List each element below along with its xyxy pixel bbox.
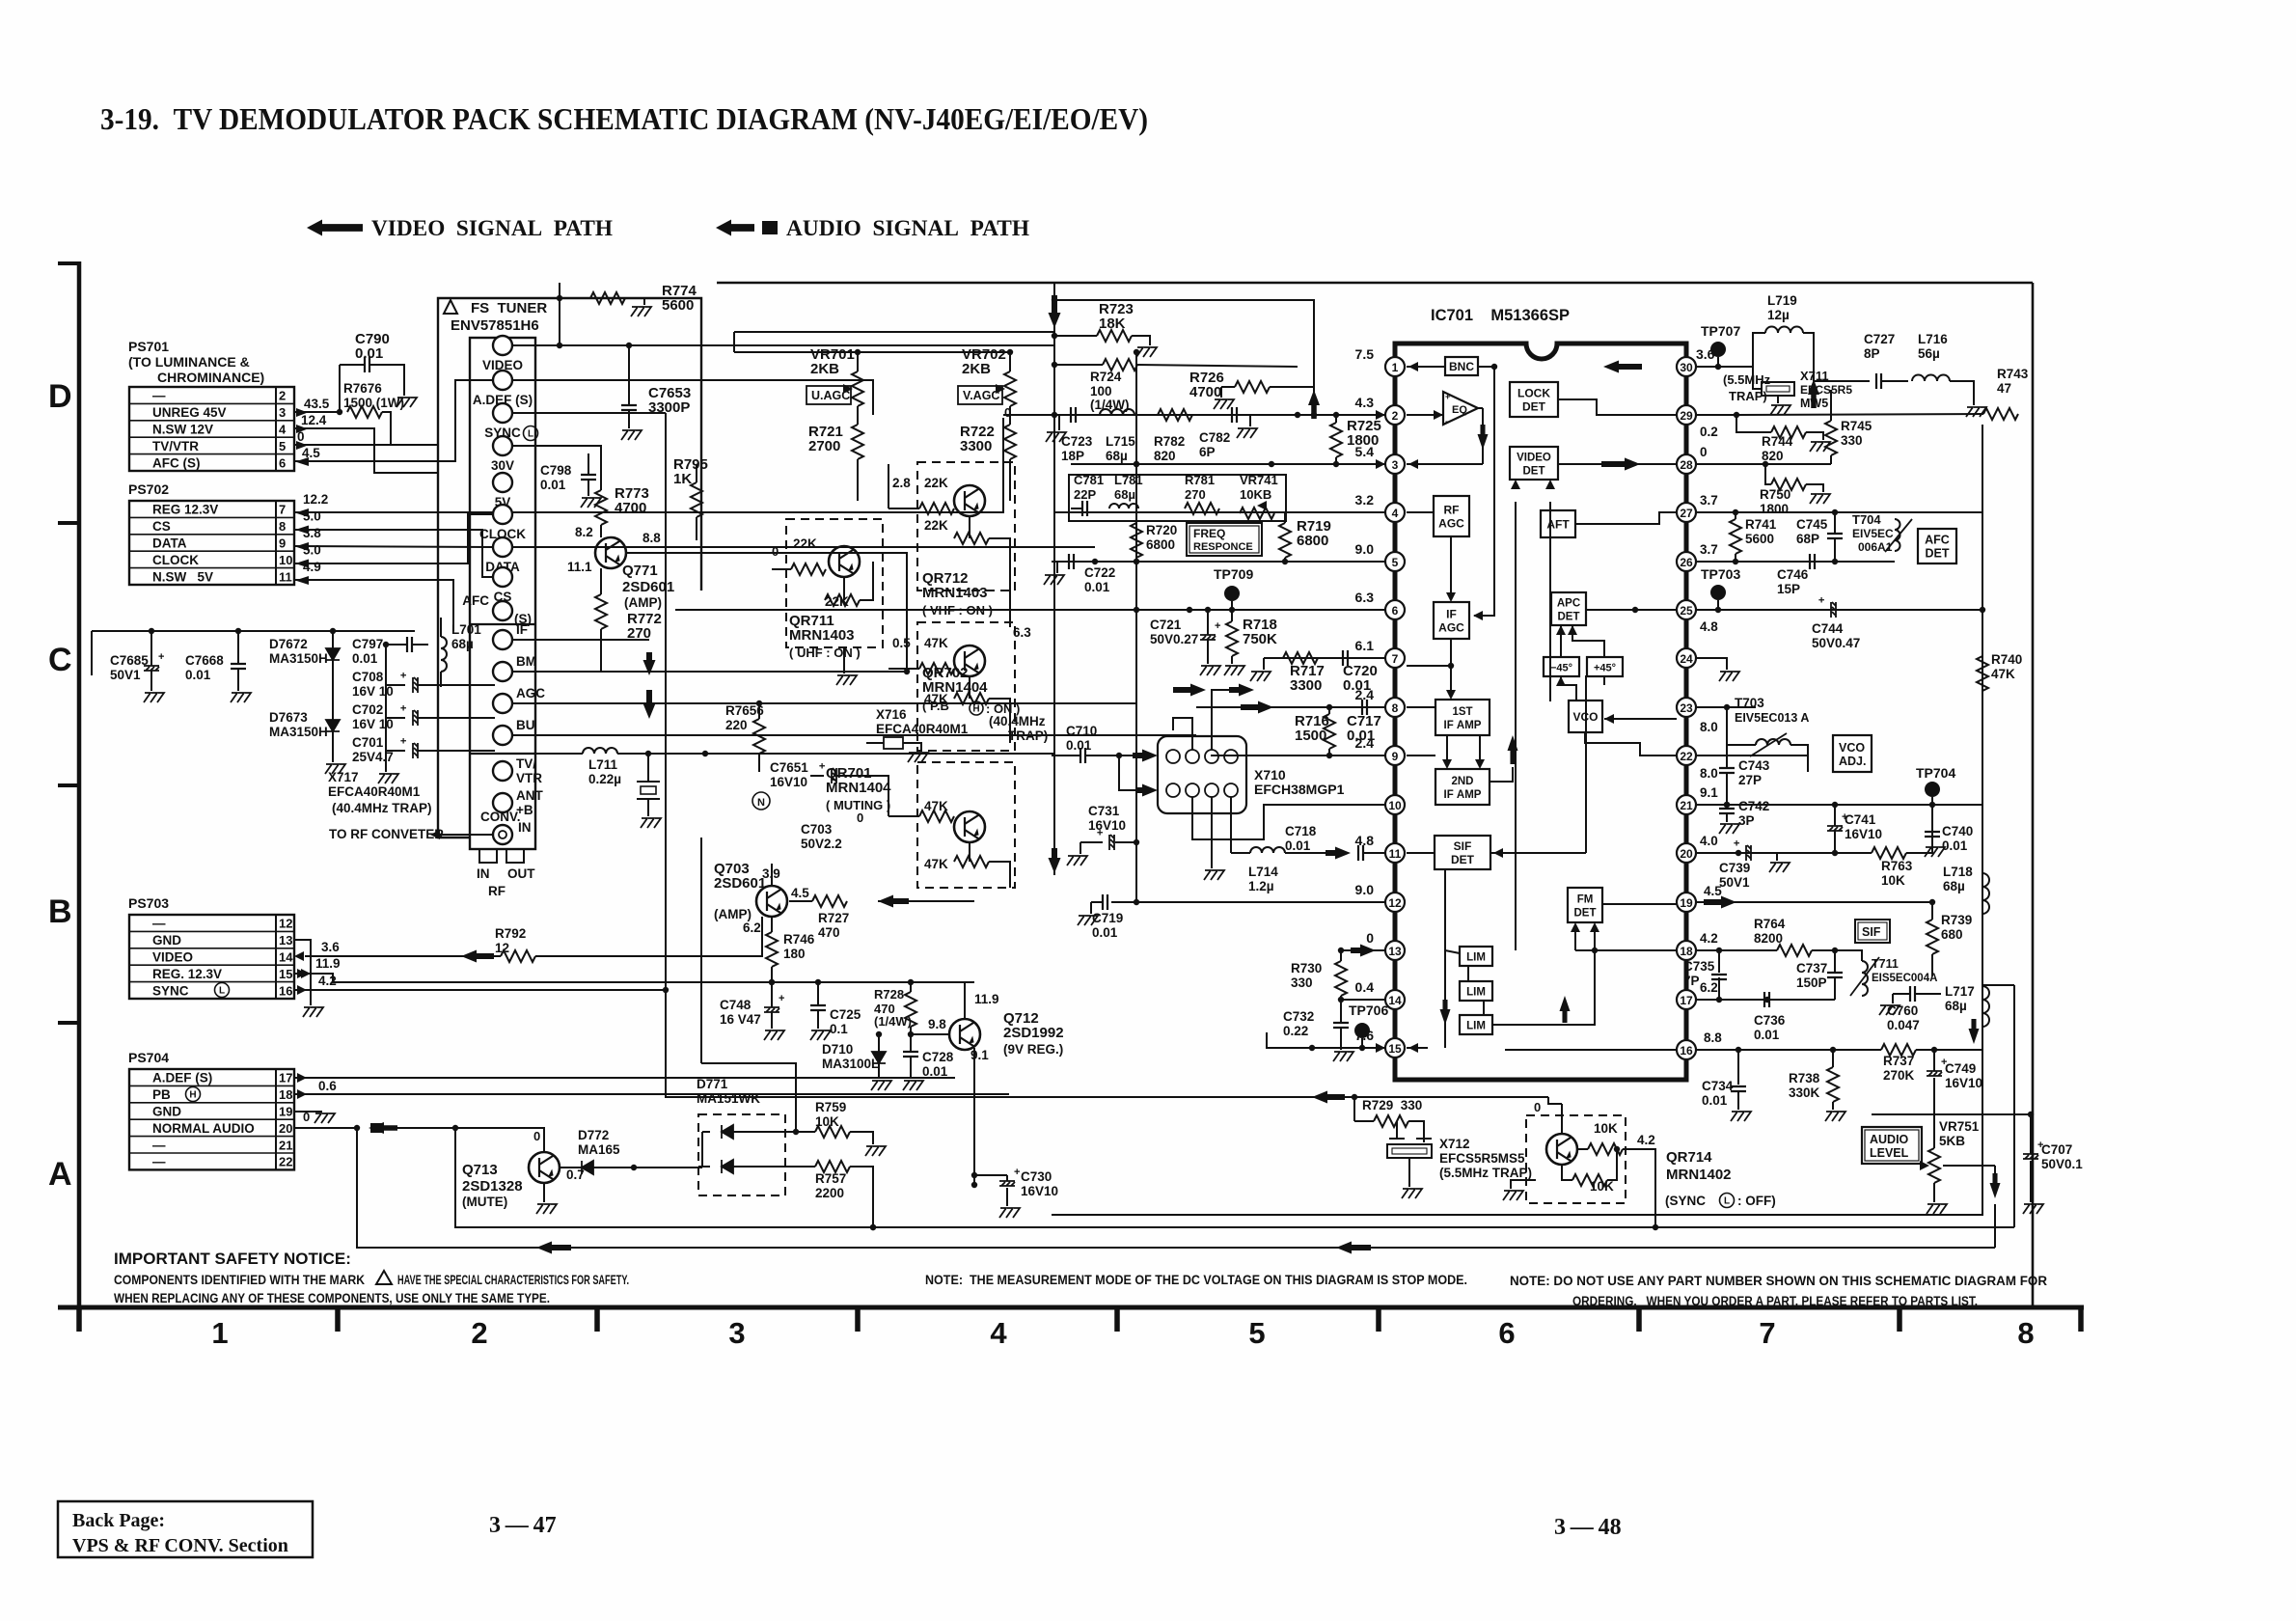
- svg-text:VIDEO: VIDEO: [152, 950, 193, 965]
- svg-text:12µ: 12µ: [1767, 308, 1790, 322]
- svg-text:C718: C718: [1285, 824, 1317, 838]
- svg-text:1ST: 1ST: [1452, 706, 1472, 718]
- wire pin24 stub: [1696, 658, 1727, 670]
- wire y311: [1054, 300, 1314, 415]
- wire bus right drop2: [1994, 1204, 1996, 1248]
- svg-text:EFCA40R40M1: EFCA40R40M1: [328, 784, 421, 799]
- svg-text:C701: C701: [352, 735, 384, 750]
- IC wire LIM3 out: [1492, 950, 1595, 1025]
- IC wire pin3-EQ: [1407, 463, 1483, 465]
- IC block LOCK DET: [1510, 382, 1558, 417]
- svg-text:4.2: 4.2: [1700, 931, 1718, 946]
- svg-text:11: 11: [279, 569, 292, 584]
- svg-text:VIDEO SIGNAL PATH: VIDEO SIGNAL PATH: [371, 216, 613, 240]
- svg-text:R743: R743: [1997, 367, 2029, 381]
- svg-text:3.8: 3.8: [303, 526, 321, 540]
- svg-text:22: 22: [1680, 750, 1693, 763]
- svg-text:0.5: 0.5: [892, 636, 911, 650]
- svg-text:AUDIO: AUDIO: [1870, 1133, 1909, 1146]
- svg-text:SYNC: SYNC: [152, 983, 189, 998]
- svg-text:680: 680: [1941, 927, 1963, 942]
- wire pin8 row: [1196, 706, 1385, 708]
- svg-text:20: 20: [279, 1121, 292, 1136]
- svg-text:21: 21: [1680, 799, 1693, 812]
- wire BM out: [512, 671, 907, 673]
- box VR741 row: [1069, 475, 1286, 521]
- svg-text:CLOCK: CLOCK: [152, 553, 199, 567]
- svg-text:26: 26: [1680, 556, 1693, 569]
- svg-text:50V1: 50V1: [110, 668, 141, 682]
- svg-text:6: 6: [279, 455, 286, 470]
- X710 gnd stub: [1212, 690, 1244, 750]
- svg-text:AFC: AFC: [462, 593, 489, 608]
- IC701 pin 5: [1385, 552, 1405, 571]
- svg-text:0.6: 0.6: [318, 1079, 337, 1093]
- frame bottom tick 2: [335, 1307, 341, 1332]
- wire Q771 emitter: [626, 553, 907, 672]
- wire bottom bus1: [455, 1128, 2014, 1227]
- svg-text:4.2: 4.2: [1637, 1133, 1655, 1147]
- svg-text:C746: C746: [1777, 567, 1809, 582]
- transistor QR712 wires: [888, 508, 919, 509]
- svg-text:8.8: 8.8: [1704, 1030, 1722, 1045]
- IC wire VCO-pin22: [1585, 732, 1677, 756]
- svg-text:0.22: 0.22: [1283, 1024, 1308, 1038]
- connector PS702: [129, 501, 294, 585]
- svg-text:14: 14: [279, 950, 293, 965]
- svg-text:EIV5EC: EIV5EC: [1852, 527, 1894, 540]
- right bus vertical: [1982, 425, 1983, 1052]
- tuner pin A.DEF (S): [493, 371, 512, 390]
- svg-text:6.2: 6.2: [1700, 980, 1718, 995]
- svg-text:GND: GND: [152, 933, 181, 948]
- svg-text:(AMP): (AMP): [624, 595, 662, 610]
- svg-text:2: 2: [471, 1316, 487, 1350]
- svg-text:AFC: AFC: [1925, 534, 1950, 547]
- svg-text:CONV.: CONV.: [480, 810, 521, 824]
- capacitor C735: [1711, 975, 1727, 979]
- svg-text:47K: 47K: [1991, 667, 2015, 681]
- svg-text:8.2: 8.2: [575, 525, 593, 539]
- IC701 pin 1: [1385, 357, 1405, 376]
- signal arrow pin8: [1173, 684, 1206, 697]
- IC wire FM arrows: [1574, 928, 1576, 950]
- svg-text:50V0.1: 50V0.1: [2041, 1157, 2083, 1171]
- wire pin27 row: [1696, 511, 1982, 513]
- svg-text:3P: 3P: [1738, 813, 1755, 828]
- svg-text:23: 23: [1680, 701, 1693, 715]
- svg-text:0: 0: [297, 429, 305, 444]
- X710 contact bottom 4: [1224, 783, 1238, 797]
- svg-text:5: 5: [279, 439, 286, 453]
- IC block RF AGC: [1434, 496, 1469, 536]
- svg-text:50V0.47: 50V0.47: [1812, 636, 1860, 650]
- svg-text:6800: 6800: [1297, 533, 1328, 549]
- svg-text:180: 180: [783, 947, 806, 961]
- tuner pin BU: [493, 726, 512, 745]
- wire cap bus: [385, 645, 387, 772]
- svg-text:19: 19: [279, 1105, 292, 1119]
- IC wire APC arrows: [1560, 625, 1562, 657]
- capacitor C739: [1732, 840, 1751, 861]
- svg-text:UNREG 45V: UNREG 45V: [152, 405, 227, 420]
- svg-text:C727: C727: [1864, 332, 1895, 346]
- svg-text:2SD601: 2SD601: [714, 875, 766, 892]
- IC wire RF AGC in: [1407, 511, 1434, 513]
- svg-text:7: 7: [1759, 1316, 1775, 1350]
- svg-text:R739: R739: [1941, 913, 1972, 927]
- svg-text:2200: 2200: [815, 1186, 844, 1200]
- IC wire 1st-2nd arrows: [1446, 735, 1448, 762]
- IC701 pin 4: [1385, 503, 1405, 522]
- wire pin17 row: [1696, 999, 1835, 1001]
- IC701 pin 22: [1677, 746, 1696, 765]
- svg-text:8.8: 8.8: [642, 531, 661, 545]
- capacitor C730: [999, 1181, 1015, 1186]
- svg-text:0.01: 0.01: [1343, 677, 1371, 694]
- transistor QR711 box: [786, 519, 883, 647]
- svg-text:R741: R741: [1745, 517, 1777, 532]
- svg-text:16V10: 16V10: [1021, 1184, 1058, 1198]
- svg-text:12: 12: [279, 917, 292, 931]
- svg-text:IF AMP: IF AMP: [1444, 789, 1482, 801]
- svg-text:+: +: [398, 673, 410, 678]
- svg-text:1: 1: [1392, 361, 1399, 374]
- wire NORMAL AUDIO 2: [384, 1127, 544, 1129]
- svg-text:4.3: 4.3: [1355, 395, 1375, 410]
- signal arrow up x1362: [1308, 390, 1320, 419]
- svg-text:22: 22: [279, 1155, 292, 1169]
- wire pin16 row: [1696, 1049, 1881, 1051]
- svg-text:H: H: [189, 1090, 196, 1101]
- IC block BNC: [1445, 357, 1478, 375]
- svg-text:5600: 5600: [662, 297, 694, 314]
- svg-text:150P: 150P: [1796, 975, 1827, 990]
- tuner pin BM: [493, 662, 512, 681]
- svg-text:47K: 47K: [924, 857, 948, 871]
- svg-text:IF: IF: [516, 622, 528, 637]
- svg-text:270K: 270K: [1883, 1068, 1915, 1083]
- svg-text:R720: R720: [1146, 523, 1177, 537]
- IC arrow up 2nd: [1508, 735, 1518, 764]
- svg-text:TO RF CONVETER: TO RF CONVETER: [329, 827, 444, 841]
- svg-text:X710: X710: [1254, 767, 1286, 783]
- block AFC DET: [1918, 529, 1956, 563]
- wire pin12 row: [1111, 901, 1385, 903]
- svg-text:L719: L719: [1767, 293, 1797, 308]
- wire vert x1093: [1053, 332, 1055, 875]
- svg-text:EIV5EC013 A: EIV5EC013 A: [1735, 711, 1809, 725]
- svg-text:L718: L718: [1943, 865, 1973, 879]
- IC wire IF AGC down: [1450, 639, 1452, 694]
- svg-text:TV/: TV/: [516, 756, 536, 771]
- connector X710: [1158, 736, 1246, 813]
- IC701 pin 6: [1385, 600, 1405, 619]
- IC701 pin 18: [1677, 941, 1696, 960]
- IC block +45: [1587, 657, 1623, 676]
- svg-text:6.3: 6.3: [1355, 590, 1375, 605]
- svg-text:R744: R744: [1762, 434, 1793, 449]
- svg-text:R746: R746: [783, 932, 815, 947]
- wire Q713 emitter: [543, 1183, 545, 1202]
- svg-text:—: —: [152, 1155, 166, 1169]
- IC701 pin 16: [1677, 1040, 1696, 1059]
- svg-text:C725: C725: [830, 1007, 861, 1022]
- svg-text:REG 12.3V: REG 12.3V: [152, 503, 218, 517]
- svg-text:TV/VTR: TV/VTR: [152, 439, 199, 453]
- svg-text:270: 270: [627, 625, 651, 642]
- signal arrow bottom x1093: [1049, 848, 1061, 873]
- svg-text:7: 7: [279, 503, 286, 517]
- svg-text:R729 330: R729 330: [1362, 1098, 1422, 1113]
- svg-text:8200: 8200: [1754, 931, 1783, 946]
- wire PS702-11: [294, 580, 453, 631]
- svg-text:( UHF : ON ): ( UHF : ON ): [789, 646, 861, 660]
- svg-text:0.01: 0.01: [185, 668, 211, 682]
- svg-text:A: A: [48, 1156, 72, 1193]
- svg-text:EQ: EQ: [1452, 404, 1467, 416]
- svg-text:12: 12: [1388, 896, 1402, 910]
- wire R729 left: [1353, 1097, 1355, 1121]
- svg-text:6P: 6P: [1199, 445, 1216, 459]
- transistor QR701 box: [917, 762, 1015, 888]
- capacitor C707: [2023, 1154, 2038, 1159]
- svg-text:RF: RF: [1444, 504, 1460, 517]
- wire ADEF-17 row: [294, 1077, 955, 1079]
- svg-text:C781: C781: [1074, 473, 1104, 487]
- wire PS702-9: [294, 546, 493, 547]
- svg-text:8: 8: [279, 519, 286, 534]
- wire pin23 row: [1696, 706, 1756, 708]
- svg-text:C730: C730: [1021, 1169, 1052, 1184]
- frame tick D/C: [58, 521, 79, 525]
- svg-text:7P: 7P: [1683, 974, 1700, 988]
- svg-text:2ND: 2ND: [1451, 776, 1473, 787]
- svg-text:27P: 27P: [1738, 773, 1762, 787]
- svg-text:DET: DET: [1523, 466, 1545, 478]
- svg-text:2KB: 2KB: [962, 361, 991, 377]
- svg-text:1K: 1K: [673, 471, 692, 487]
- svg-text:16V 10: 16V 10: [352, 684, 394, 699]
- IC block 1ST IF AMP: [1435, 700, 1490, 735]
- IC wire pin13-LIM: [1445, 950, 1460, 953]
- IC701 pin 30: [1677, 357, 1696, 376]
- svg-text:L715: L715: [1106, 434, 1135, 449]
- svg-text:0.01: 0.01: [1084, 580, 1110, 594]
- svg-text:EFCA40R40M1: EFCA40R40M1: [876, 722, 969, 736]
- svg-text:68µ: 68µ: [1114, 487, 1135, 502]
- svg-text:16 V47: 16 V47: [720, 1012, 761, 1027]
- svg-text:X717: X717: [328, 770, 359, 784]
- X710 contact top 3: [1205, 750, 1218, 763]
- svg-text:+: +: [398, 738, 410, 744]
- svg-text:19: 19: [1680, 896, 1693, 910]
- svg-text:( P.B: ( P.B: [922, 699, 949, 713]
- transistor QR711: [829, 546, 860, 577]
- wire R743 link: [1736, 414, 1983, 415]
- svg-text:R792: R792: [495, 926, 526, 941]
- svg-text:(MUTE): (MUTE): [462, 1195, 507, 1209]
- wire right mid: [1872, 1113, 2031, 1115]
- X710 bottom wire2: [1192, 797, 1385, 839]
- svg-text:(40.4MHz TRAP): (40.4MHz TRAP): [332, 801, 432, 815]
- svg-text:VCO: VCO: [1839, 741, 1865, 755]
- svg-text:AGC: AGC: [1438, 517, 1464, 531]
- svg-text:1500: 1500: [1295, 728, 1326, 744]
- svg-text:11.1: 11.1: [567, 560, 592, 574]
- svg-text:T711: T711: [1872, 957, 1899, 971]
- svg-text:16: 16: [1680, 1044, 1693, 1058]
- wire Q713 collector: [376, 1128, 544, 1152]
- IC block VIDEO DET: [1510, 447, 1558, 480]
- IC block VCO: [1569, 701, 1602, 732]
- signal arrow down right: [1990, 1173, 2001, 1198]
- svg-text:1800: 1800: [1760, 502, 1789, 516]
- svg-text:R724: R724: [1090, 370, 1122, 384]
- svg-text:C742: C742: [1738, 799, 1769, 813]
- tuner pin DATA: [493, 537, 512, 557]
- svg-text:C782: C782: [1199, 430, 1230, 445]
- wire bottom bus2: [357, 1128, 1995, 1248]
- svg-text:Q713: Q713: [462, 1162, 498, 1178]
- IC wire RF AGC down: [1450, 536, 1452, 596]
- IC701 pin 10: [1385, 795, 1405, 814]
- resistor R746: [766, 932, 778, 967]
- svg-text:6.1: 6.1: [1355, 638, 1375, 653]
- svg-text:TP704: TP704: [1916, 765, 1955, 781]
- frame tick C/B: [58, 783, 79, 787]
- signal arrow down C760: [1969, 1019, 1980, 1044]
- wire REG bus: [294, 974, 974, 982]
- tuner pin CLOCK: [493, 505, 512, 524]
- svg-text:4.5: 4.5: [1704, 884, 1722, 898]
- transistor Q712: [949, 1019, 980, 1050]
- svg-text:H: H: [972, 704, 979, 715]
- IC wire APC right: [1586, 609, 1677, 611]
- wire pin15 left: [1267, 1032, 1304, 1048]
- resistor R725 sym: [1330, 423, 1342, 457]
- transistor Q771: [595, 537, 626, 568]
- svg-text:15: 15: [1388, 1042, 1402, 1056]
- tuner pin ANT+B: [493, 793, 512, 812]
- svg-text:100: 100: [1090, 384, 1112, 398]
- svg-text:0.01: 0.01: [1347, 728, 1375, 744]
- wire pin9 row: [1211, 755, 1385, 756]
- svg-text:+: +: [158, 651, 164, 663]
- svg-text:25V4.7: 25V4.7: [352, 750, 394, 764]
- wire ADEF out: [512, 380, 873, 398]
- frame bottom line: [58, 1305, 2084, 1310]
- svg-text:R782: R782: [1154, 434, 1185, 449]
- IC wire pin1-BNC: [1407, 366, 1445, 368]
- svg-text:10K: 10K: [1594, 1121, 1618, 1136]
- svg-text:4.5: 4.5: [302, 446, 320, 460]
- svg-text:R740: R740: [1991, 652, 2022, 667]
- svg-text:L711: L711: [588, 757, 618, 772]
- svg-text:LEVEL: LEVEL: [1870, 1146, 1909, 1160]
- capacitor C741: [1827, 811, 1847, 831]
- svg-text:5600: 5600: [1745, 532, 1774, 546]
- svg-text:TP706: TP706: [1349, 1003, 1388, 1018]
- connector PS704: [129, 1069, 294, 1169]
- wire pin14 row: [1341, 999, 1385, 1001]
- svg-text:0.01: 0.01: [352, 651, 378, 666]
- wire SYNC out: [512, 412, 666, 414]
- svg-text:0: 0: [772, 544, 779, 559]
- svg-text:L: L: [528, 429, 533, 440]
- svg-text:17: 17: [1680, 994, 1693, 1007]
- wire Q703 collector: [771, 864, 773, 886]
- wire PS702-8: [294, 530, 493, 577]
- IC wire pin7 in: [1407, 665, 1451, 667]
- tuner pin strip: [470, 338, 535, 849]
- svg-text:C702: C702: [352, 702, 383, 717]
- svg-text:A.DEF (S): A.DEF (S): [152, 1071, 212, 1085]
- circuit border top: [717, 282, 2033, 285]
- svg-text:−: −: [1445, 417, 1450, 426]
- transistor QR711 wires: [772, 568, 791, 570]
- svg-text:EIS5EC004A: EIS5EC004A: [1872, 973, 1937, 984]
- wire R739: [1931, 902, 1933, 920]
- svg-text:C7668: C7668: [185, 653, 224, 668]
- IC701 pin 23: [1677, 698, 1696, 717]
- svg-text:D7672: D7672: [269, 637, 308, 651]
- svg-text:MA3100L: MA3100L: [822, 1057, 879, 1071]
- circuit border right: [2032, 283, 2035, 1307]
- inner box left vertical: [733, 332, 735, 352]
- svg-text:0: 0: [1700, 445, 1708, 459]
- svg-text:2SD1992: 2SD1992: [1003, 1025, 1064, 1041]
- svg-text:C707: C707: [2041, 1142, 2072, 1157]
- svg-text:7: 7: [1392, 652, 1399, 666]
- svg-text:LIM: LIM: [1466, 987, 1486, 999]
- svg-text:R745: R745: [1841, 419, 1872, 433]
- svg-text:5.0: 5.0: [303, 509, 321, 524]
- svg-text:CHROMINANCE): CHROMINANCE): [157, 370, 264, 385]
- IC wire AFT: [1575, 512, 1677, 524]
- svg-text:L781: L781: [1114, 473, 1143, 487]
- svg-text:FREQ: FREQ: [1193, 527, 1225, 540]
- transistor QR714 collector: [1561, 1104, 1563, 1134]
- wire C727 row: [1814, 380, 1870, 382]
- svg-text:50V0.27: 50V0.27: [1150, 632, 1198, 646]
- tuner safety mark: [444, 300, 457, 314]
- svg-text:LOCK: LOCK: [1517, 387, 1550, 400]
- svg-text:6.2: 6.2: [743, 920, 761, 935]
- IC wire pin18 in: [1595, 949, 1677, 951]
- wire gnd bus left: [92, 630, 415, 632]
- svg-text:470: 470: [818, 925, 840, 940]
- svg-text:D772: D772: [578, 1128, 609, 1142]
- wire bus right drop: [2013, 985, 2015, 1227]
- svg-text:QR714: QR714: [1666, 1149, 1712, 1166]
- audio signal path legend arrow: [716, 220, 754, 236]
- svg-text:24: 24: [1680, 652, 1693, 666]
- svg-text:V.AGC: V.AGC: [963, 389, 999, 402]
- svg-text:6: 6: [1392, 604, 1399, 618]
- IC701 pin 24: [1677, 648, 1696, 668]
- svg-text:(TO LUMINANCE &: (TO LUMINANCE &: [128, 354, 250, 370]
- svg-text:T703: T703: [1735, 696, 1764, 710]
- svg-text:VIDEO: VIDEO: [1517, 453, 1551, 464]
- svg-text:18: 18: [1680, 945, 1693, 958]
- resistor R743 zz: [1983, 408, 2018, 420]
- svg-text:4: 4: [279, 423, 287, 437]
- svg-text:C744: C744: [1812, 621, 1844, 636]
- svg-text:N: N: [757, 797, 765, 809]
- svg-text:SIF: SIF: [1454, 839, 1472, 853]
- svg-text:9.0: 9.0: [1355, 882, 1375, 897]
